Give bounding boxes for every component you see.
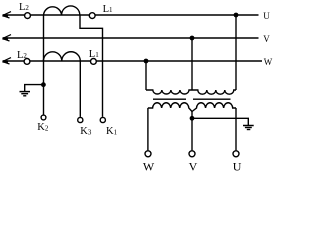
arrow on bus W [3,58,12,64]
terminal U (secondary) [233,151,239,157]
svg-text:K2: K2 [37,122,49,133]
wire: secondary V neutral lead [191,111,193,150]
wire: drop from bus W to VT primary [145,61,147,90]
node: tap on bus V [190,36,195,41]
svg-text:L2: L2 [19,2,29,13]
svg-text:U: U [233,159,242,173]
wire: secondary W lead [147,108,149,150]
node: junction dot to ground tap [41,82,46,87]
VT core 2 [193,98,231,100]
svg-text:L1: L1 [89,49,99,60]
svg-text:K3: K3 [80,126,92,137]
wire: common secondary lead down to K2 [43,15,45,115]
svg-text:W: W [264,57,273,67]
svg-text:U: U [263,11,270,21]
wire: CT T2 secondary lead down to K3 [79,61,81,117]
VT core 1 [153,98,186,100]
VT secondary winding 1, four bumps up [148,103,192,112]
terminal L1 of CT T2 (circle on bus W) [91,59,97,65]
svg-text:K1: K1 [106,126,118,137]
terminal K2 [41,115,46,120]
wire: drop from bus V to VT primary [191,38,193,90]
terminal V (secondary) [189,151,195,157]
terminal L2 of CT T2 (circle on bus W) [24,59,30,65]
node: neutral junction dot [190,116,195,121]
svg-text:V: V [263,34,270,44]
svg-text:W: W [143,159,155,173]
svg-text:V: V [189,159,198,173]
node: tap on bus W [144,59,149,64]
wire: secondary U lead [235,108,237,150]
wire bus V (middle phase line) [3,37,259,39]
svg-text:L1: L1 [103,4,113,15]
wire: drop from bus U to VT primary [235,15,237,90]
ground (right earth symbol) [243,125,254,127]
wire bus U (top phase line) [3,14,259,16]
VT primary winding 2 (V-U), four bumps down [192,90,236,94]
CT T2 primary winding (two humps on bus W) [43,52,80,61]
CT T1 primary winding (two humps on bus U) [44,6,80,15]
terminal L2 of CT T1 (circle on bus U) [25,13,31,19]
VT secondary winding 2, four bumps up [192,103,236,112]
terminal L1 of CT T1 (circle on bus U) [89,13,95,19]
wire: neutral to right ground [192,118,248,125]
svg-text:L2: L2 [17,50,27,61]
wire: CT T1 secondary lead, step to K1 [80,15,103,117]
wire bus W (bottom phase line) [3,60,262,62]
node: tap on bus U [234,13,239,18]
VT primary winding 1 (W-V), four bumps down [146,90,192,94]
arrow on bus U [3,12,12,18]
ground (left earth symbol) [20,91,31,93]
wire: ground tap horizontal [25,85,44,91]
terminal K1 [100,117,105,122]
terminal K3 [78,117,83,122]
arrow on bus V [3,35,12,41]
terminal W (secondary) [145,151,151,157]
